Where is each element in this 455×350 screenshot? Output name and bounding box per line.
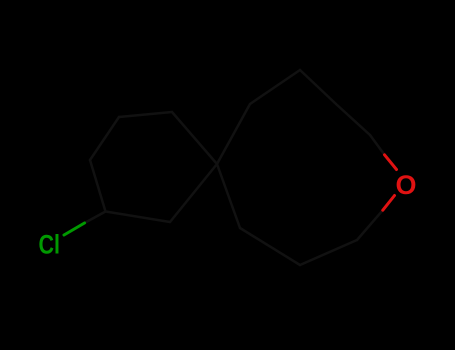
bond Ctr-O carbon half <box>370 135 385 155</box>
bond E-F (ring1 right lower edge) <box>170 164 217 222</box>
bond B2-LB <box>240 228 300 265</box>
bond C-D (ring1 top edge) <box>119 112 172 117</box>
bond Cbr-B2 (ring2 bottom) <box>300 240 357 265</box>
bond LB-S (ring2 lower left) <box>217 164 240 228</box>
bond D-E <box>172 112 217 164</box>
bond P-M1 <box>300 70 336 104</box>
svg-text:Cl: Cl <box>39 230 61 260</box>
bond M1-Ctr <box>336 104 370 135</box>
svg-text:O: O <box>396 170 417 200</box>
bond A-B (ring1 left edge) <box>90 160 106 212</box>
bond O-Cbr carbon half <box>357 210 383 240</box>
oxygen half-bond lower (red) <box>383 196 395 211</box>
bond F-A (ring1 bottom edge) <box>106 212 171 223</box>
bond U1-P <box>250 70 300 104</box>
chlorine half-bond (green) <box>64 223 85 235</box>
bond B-C <box>90 117 119 160</box>
bond S-U1 (ring2 upper left) <box>217 104 250 164</box>
oxygen half-bond upper (red) <box>385 155 397 170</box>
bond Cl-A carbon half <box>85 212 106 224</box>
